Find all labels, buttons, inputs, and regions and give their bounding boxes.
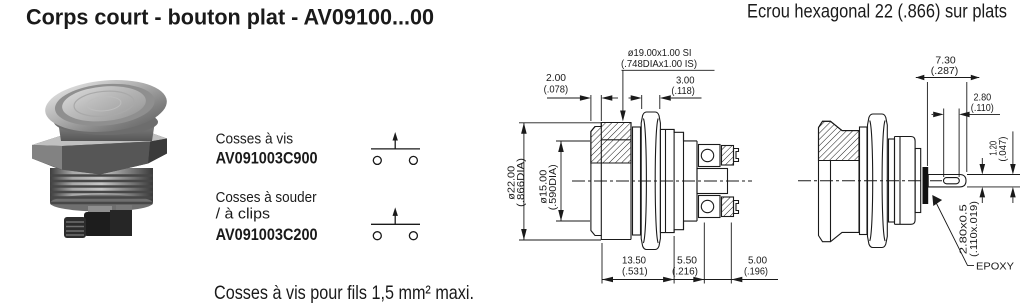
svg-text:AV091003C200: AV091003C200	[216, 226, 318, 244]
svg-text:5.00: 5.00	[748, 256, 767, 267]
contact circles	[373, 232, 381, 240]
flange outline	[819, 121, 860, 241]
terminal block bottom	[699, 196, 721, 218]
svg-text:(.866DIA): (.866DIA)	[516, 158, 527, 207]
svg-text:13.50: 13.50	[622, 256, 646, 267]
dim 2.80 line + arrows	[932, 113, 934, 115]
dim 1.20 arrows right pair	[1012, 131, 1014, 164]
photo: threaded body	[50, 168, 153, 212]
washer	[860, 127, 868, 235]
dim 3.00 ext lines	[641, 95, 643, 109]
EPOXY leader	[936, 202, 975, 266]
middle drawing dimension texts	[507, 48, 769, 277]
dim 3.00 line + arrows	[629, 97, 632, 99]
photo: button face	[61, 83, 148, 125]
dim 1.20 ext lines	[967, 174, 1020, 176]
svg-text:2.00: 2.00	[546, 73, 566, 84]
svg-text:EPOXY: EPOXY	[976, 261, 1014, 272]
bottom dim line 13.50 / 5.50 / 5.00	[602, 279, 731, 281]
photo: button cap groove	[53, 80, 156, 130]
svg-text:Cosses à souder: Cosses à souder	[216, 190, 317, 206]
dim ø15 line + arrows	[560, 141, 562, 221]
svg-text:(.216): (.216)	[672, 267, 698, 278]
hex nut side view	[641, 112, 660, 250]
centerline	[572, 180, 752, 182]
dim ø22 ext lines	[519, 122, 601, 124]
switch symbol S1 (cosses à vis)	[371, 132, 420, 164]
leader ø19	[622, 69, 715, 71]
svg-text:5.50: 5.50	[677, 256, 697, 267]
dim 7.30 ext lines	[926, 82, 928, 166]
actuator arrow	[394, 212, 396, 224]
dim 2.00 ext lines	[590, 95, 592, 121]
svg-text:(.748DIAx1.00 IS): (.748DIAx1.00 IS)	[621, 59, 697, 70]
svg-text:/ à clips: / à clips	[216, 207, 271, 223]
solder terminal tab	[928, 175, 966, 187]
photo: bezel skirt	[56, 108, 157, 141]
svg-text:Cosses à vis: Cosses à vis	[216, 131, 294, 147]
svg-text:2.80x0.5: 2.80x0.5	[959, 204, 970, 255]
svg-text:Ecrou hexagonal 22 (.866) sur: Ecrou hexagonal 22 (.866) sur plats	[747, 0, 1007, 22]
wire	[371, 223, 420, 225]
actuator arrow	[394, 137, 396, 149]
svg-text:(.118): (.118)	[671, 86, 694, 97]
terminal block top	[699, 145, 721, 167]
svg-text:(.196): (.196)	[744, 267, 768, 278]
svg-text:(.078): (.078)	[544, 84, 569, 95]
photo: terminals	[64, 205, 132, 238]
svg-text:(.110): (.110)	[971, 103, 994, 114]
svg-text:Cosses à vis pour fils 1,5 mm²: Cosses à vis pour fils 1,5 mm² maxi.	[214, 282, 474, 304]
bottom ext lines	[601, 243, 603, 284]
svg-text:(.110x.019): (.110x.019)	[969, 201, 980, 257]
svg-text:(.590DIA): (.590DIA)	[548, 164, 559, 210]
contact circles	[373, 156, 381, 164]
centerline	[798, 180, 942, 182]
rear cylinder	[915, 149, 921, 213]
dim 1.20 arrows left pair	[981, 158, 983, 164]
svg-text:(.047): (.047)	[998, 137, 1009, 162]
dim ø22 line + arrows	[523, 123, 525, 240]
dim 2.80 ext lines	[943, 109, 945, 178]
svg-text:ø19.00x1.00 SI: ø19.00x1.00 SI	[628, 48, 692, 59]
svg-text:Corps court - bouton plat - AV: Corps court - bouton plat - AV09100...00	[26, 4, 434, 29]
body thread and tube	[660, 129, 697, 141]
svg-text:(.531): (.531)	[622, 267, 648, 278]
terminal block center	[697, 169, 728, 194]
photo: hex nut	[32, 133, 167, 175]
switch symbol S2 (cosses à souder)	[371, 207, 420, 239]
middle drawing dimensions	[519, 70, 778, 283]
svg-text:AV091003C900: AV091003C900	[216, 149, 318, 167]
hex nut side view	[868, 114, 888, 248]
dim 7.30 line + arrows	[916, 77, 980, 79]
wire	[371, 148, 420, 150]
flange hatch top half	[591, 123, 631, 164]
washer	[633, 127, 641, 235]
dim ø15 ext lines	[556, 140, 590, 142]
flange outline	[591, 123, 631, 240]
right drawing dimensions	[916, 75, 1020, 266]
dim 2.00 line + arrows	[547, 97, 580, 99]
svg-text:(.287): (.287)	[931, 66, 959, 77]
photo: button cap rim	[43, 75, 169, 136]
epoxy seal	[923, 167, 929, 204]
right drawing dimension texts	[931, 56, 1014, 273]
flange hatch	[819, 121, 860, 160]
body	[889, 139, 895, 222]
